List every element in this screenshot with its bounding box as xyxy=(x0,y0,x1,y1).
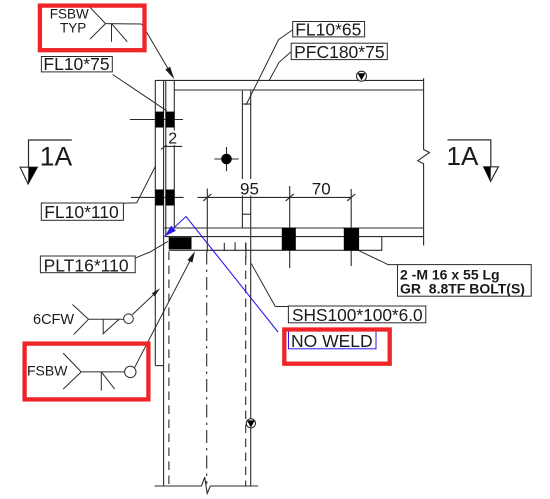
datum symbol on beam top xyxy=(357,71,367,81)
svg-text:FL10*65: FL10*65 xyxy=(295,19,361,39)
stiffener FL10*65 right edge / SHS right wall xyxy=(250,91,252,486)
bolt block B1 xyxy=(282,228,296,251)
leader FL10*75 xyxy=(113,75,167,111)
leader FSBW TYP arrowhead xyxy=(165,67,174,80)
svg-text:SHS100*100*6.0: SHS100*100*6.0 xyxy=(292,305,423,325)
beam bottom flange bottom line xyxy=(165,236,424,238)
beam bottom flange top line xyxy=(164,227,423,229)
red highlight box FSBW xyxy=(25,344,149,400)
column right face line xyxy=(173,81,175,229)
svg-text:1A: 1A xyxy=(447,141,479,171)
svg-text:PFC180*75: PFC180*75 xyxy=(294,42,384,62)
bolt dot cross vertical xyxy=(226,147,228,171)
svg-text:6CFW: 6CFW xyxy=(33,312,74,328)
label box bolts xyxy=(398,265,532,297)
weld block row1 left xyxy=(155,112,163,128)
leader NO WELD (blue) xyxy=(165,217,278,333)
SHS centerline (dash-dot) xyxy=(206,252,208,485)
column bottom break line xyxy=(155,477,259,493)
label box SHS100*100*6.0 xyxy=(288,305,425,325)
SHS hidden wall left (dashed) xyxy=(168,252,170,487)
label box PFC180*75 xyxy=(291,42,387,62)
leader PFC180*75 xyxy=(269,52,291,80)
dimension extension line 2 xyxy=(289,186,291,268)
bolt dot cross horizontal xyxy=(214,158,238,160)
svg-text:95: 95 xyxy=(240,180,259,199)
weld symbol FSBW bottom xyxy=(63,353,136,391)
SHS hidden wall right (dashed) xyxy=(245,243,247,487)
beam top flange inner line xyxy=(174,89,423,91)
datum symbol on column xyxy=(246,419,255,428)
stiffener joint line lower xyxy=(242,213,250,215)
svg-text:FL10*110: FL10*110 xyxy=(44,202,119,222)
weld block row2 left xyxy=(155,190,163,206)
tick mark on plate 2 xyxy=(234,242,236,251)
plate PLT16*110 bottom edge xyxy=(169,237,382,251)
svg-text:2: 2 xyxy=(168,131,177,148)
beam right end break line xyxy=(418,78,430,245)
leader FL10*110 xyxy=(123,166,155,204)
leader SHS label xyxy=(251,264,288,307)
weld block row2 right xyxy=(166,190,175,206)
column left face line xyxy=(165,81,167,238)
dimension line 95/70 xyxy=(198,196,352,198)
gap 2mm underline xyxy=(165,145,182,147)
svg-text:GR 8.8TF BOLT(S): GR 8.8TF BOLT(S) xyxy=(400,280,525,296)
dimension extension line 3 xyxy=(350,189,352,266)
stiffener joint line upper xyxy=(242,103,251,105)
dim text background 2 xyxy=(167,131,180,146)
leader PLT16*110 xyxy=(134,241,168,258)
plate FL10*110 right edge / SHS left wall xyxy=(163,80,165,486)
red highlight box NO WELD xyxy=(284,330,389,364)
dimension tick 1 xyxy=(203,194,211,201)
dimension tick 3 xyxy=(347,194,355,201)
weld block at cleat xyxy=(169,237,192,249)
label box FL10*110 xyxy=(41,202,123,222)
label box PLT16*110 xyxy=(40,255,135,275)
leader bolts label xyxy=(359,251,398,265)
red highlight box FSBW TYP xyxy=(40,6,145,51)
svg-text:70: 70 xyxy=(312,179,331,198)
dimension tick 2 xyxy=(286,194,294,201)
dimension extension line 1 xyxy=(206,189,208,252)
weld block row1 right xyxy=(166,112,175,128)
weld row 1 centerline xyxy=(130,119,183,121)
tick mark on plate 3 xyxy=(245,243,247,259)
svg-text:FSBW: FSBW xyxy=(50,6,89,21)
dim text background 95 xyxy=(238,179,262,196)
tick mark on plate 1 xyxy=(223,243,225,251)
weld symbol 6CFW xyxy=(73,305,134,335)
svg-text:FSBW: FSBW xyxy=(27,363,68,379)
svg-text:NO WELD: NO WELD xyxy=(291,331,373,351)
section marker right xyxy=(448,140,499,181)
leader FSBW xyxy=(135,259,191,368)
plate FL10*110 left edge xyxy=(154,80,156,366)
svg-text:PLT16*110: PLT16*110 xyxy=(44,255,129,275)
svg-text:TYP: TYP xyxy=(60,21,86,36)
arrowhead NO WELD (blue) xyxy=(165,226,176,237)
leader 6CFW arrowhead xyxy=(152,288,160,296)
plate FL10*110 bottom end tick xyxy=(155,365,163,367)
svg-text:1A: 1A xyxy=(40,142,73,172)
label box FL10*65 xyxy=(293,19,365,39)
stiffener FL10*65 left edge xyxy=(241,91,243,228)
weld symbol FSBW TYP xyxy=(90,7,142,42)
weld row 2 centerline xyxy=(131,196,184,198)
leader FSBW arrowhead xyxy=(188,251,196,262)
gap 2mm slash tick xyxy=(161,144,168,149)
bolt block B2 xyxy=(344,228,359,251)
leader FSBW TYP xyxy=(142,24,172,75)
leader FL10*65 xyxy=(246,30,292,105)
leader 6CFW xyxy=(132,291,157,315)
beam PFC180*75 top flange line xyxy=(155,79,423,81)
svg-text:FL10*75: FL10*75 xyxy=(43,54,109,74)
label box FL10*75 xyxy=(41,54,112,74)
label box NO WELD (blue) xyxy=(289,330,377,351)
section marker left xyxy=(20,140,72,184)
bolt dot xyxy=(221,154,232,165)
